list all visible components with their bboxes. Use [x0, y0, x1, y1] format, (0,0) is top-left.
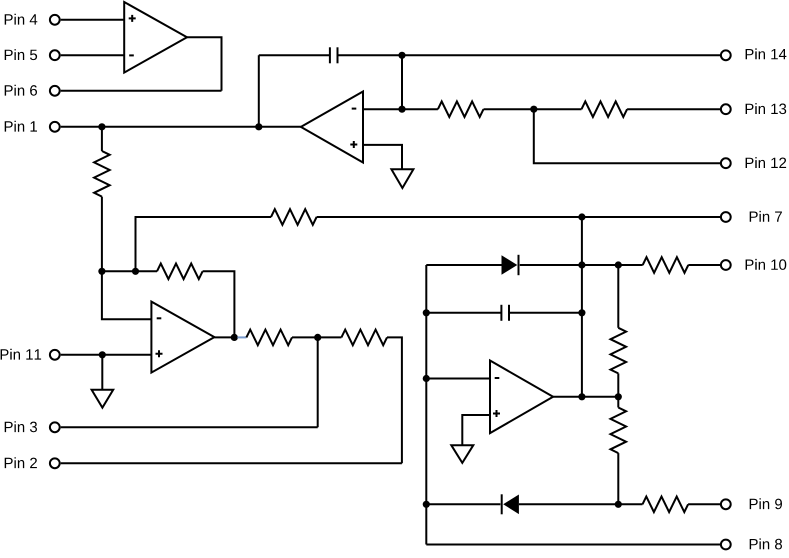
wire vertical net x582 Pin7 to U4 output — [581, 217, 583, 397]
terminal circle Pin 10 — [721, 260, 731, 270]
resistor R3 — [582, 101, 628, 117]
pin label Pin 4 — [5, 14, 38, 25]
wire R7 down to Pin 2 row — [387, 337, 402, 463]
resistor R6 — [246, 330, 292, 346]
node junction -in at x402 — [398, 106, 405, 113]
node junction rail cap row — [423, 309, 430, 316]
terminal circle Pin 5 — [50, 50, 60, 60]
node junction rail -in row — [423, 375, 430, 382]
ground symbol below U4 — [451, 445, 473, 463]
wire riser Pin 1 net to C1 — [258, 55, 260, 127]
wire R11 to Pin 9 — [688, 503, 720, 505]
terminal circle Pin 7 — [721, 212, 731, 222]
wire R6 to R7 — [292, 336, 341, 338]
terminal circle Pin 11 — [50, 350, 60, 360]
wire U4 +in to ground — [462, 415, 490, 445]
resistor R11 — [643, 496, 689, 512]
wire R1 to node A — [101, 197, 103, 272]
pin label Pin 1 — [5, 121, 37, 132]
wire U2 +in to ground — [363, 145, 402, 169]
node junction top line at x402 — [398, 52, 405, 59]
wire rail to D2 — [426, 503, 500, 505]
ground symbol below U2 — [391, 169, 413, 188]
terminal circle Pin 2 — [50, 458, 60, 468]
resistor R9 — [611, 328, 627, 374]
pin label Pin 6 — [5, 85, 37, 96]
wire node318 down to Pin 3 row — [317, 337, 319, 427]
capacitor C1 — [330, 47, 338, 63]
wire Pin 3 row — [61, 426, 318, 428]
wire R4 to Pin 7 — [317, 216, 720, 218]
wire x618 diode row to R9 — [617, 265, 619, 328]
resistor R2 — [438, 101, 484, 117]
wire C2 to x582 — [509, 312, 582, 314]
node junction output at x582 — [578, 393, 585, 400]
pin label Pin 2 — [5, 457, 37, 468]
wire node A to node B — [102, 270, 136, 272]
terminal circle Pin 8 — [721, 540, 731, 550]
node junction output at x618 — [615, 393, 622, 400]
diode D2 — [502, 494, 519, 514]
wire Pin 4 to U1 +in — [61, 19, 124, 21]
node junction diode row at x618 — [615, 261, 622, 268]
pin label Pin 14 — [746, 48, 787, 59]
wire node B up to Pin 7 row — [136, 217, 272, 271]
pin label Pin 11 — [1, 349, 42, 360]
wire R3 to Pin 13 — [627, 108, 720, 110]
diode D1 — [502, 255, 519, 275]
node junction diode row at x582 — [578, 261, 585, 268]
wire output row to R10 — [617, 397, 619, 408]
wire U4 output — [553, 396, 618, 398]
wire R10 to Pin 9 row — [617, 453, 619, 504]
op-amp U3 — [151, 302, 214, 373]
wire R8 to Pin 10 — [688, 264, 720, 266]
pin label Pin 8 — [750, 538, 782, 549]
wire Pin 11 node to ground — [101, 355, 103, 390]
wire R2 to R3 — [484, 108, 582, 110]
wire Pin 1 to U2 output — [61, 126, 301, 128]
resistor R4 — [271, 209, 317, 225]
pin label Pin 13 — [746, 103, 787, 114]
wire left rail of right block — [425, 265, 427, 545]
wire Pin 8 row — [426, 544, 720, 546]
wire node533 down and right to Pin 12 — [534, 109, 720, 163]
wire Pin1 node down to R1 — [101, 127, 103, 151]
resistor R10 — [611, 408, 627, 454]
pin label Pin 10 — [746, 259, 787, 270]
node junction at x533 — [530, 106, 537, 113]
terminal circle Pin 3 — [50, 422, 60, 432]
wire rail to D1 — [426, 264, 501, 266]
wire highlighted segment U3 output — [237, 336, 246, 338]
wire riser node402 down to U2 -in line — [401, 55, 403, 109]
node junction on Pin 1 wire at C1 riser — [255, 123, 262, 130]
node junction Pin 11 wire — [99, 351, 106, 358]
wire rail to C2 — [426, 312, 501, 314]
wire C1 to Pin 14 — [338, 54, 721, 56]
node B junction — [132, 268, 139, 275]
wire U1 output to Pin 6 net — [187, 37, 222, 91]
op-amp U4 — [490, 361, 553, 434]
terminal circle Pin 6 — [50, 86, 60, 96]
node junction x582 cap row — [578, 309, 585, 316]
node junction on Pin 1 wire at R1 — [98, 123, 105, 130]
node junction U3 output — [231, 334, 238, 341]
op-amp U1 — [124, 2, 187, 73]
terminal circle Pin 13 — [721, 104, 731, 114]
terminal circle Pin 4 — [50, 15, 60, 25]
node junction rail diode2 row — [423, 501, 430, 508]
terminal circle Pin 14 — [721, 50, 731, 60]
wire U3 output — [214, 336, 237, 338]
wire D1 to R8 — [520, 264, 643, 266]
node junction at x318 — [314, 334, 321, 341]
node junction Pin 7 row at x582 — [578, 213, 585, 220]
resistor R7 — [341, 330, 387, 346]
terminal circle Pin 1 — [50, 122, 60, 132]
wire Pin 11 to U3 +in — [61, 354, 152, 356]
resistor R8 — [643, 257, 689, 273]
wire Pin 6 to U1 output feedback — [61, 90, 222, 92]
resistor R5 feedback — [157, 264, 203, 280]
node A junction — [98, 268, 105, 275]
wire node A down to U3 -in — [102, 271, 151, 319]
wire R5 to U3 output riser — [203, 271, 235, 337]
ground symbol below Pin 11 — [92, 390, 114, 408]
wire U2 -in lead — [363, 108, 438, 110]
resistor R1 — [94, 151, 110, 197]
capacitor C2 — [501, 305, 509, 321]
wire rail to U4 -in — [426, 378, 490, 380]
wire D2 to R11 — [519, 503, 643, 505]
node junction diode2 row at x618 — [615, 501, 622, 508]
pin label Pin 12 — [746, 157, 787, 168]
pin label Pin 9 — [750, 498, 782, 509]
pin label Pin 3 — [5, 421, 37, 432]
wire Pin 2 row — [61, 462, 402, 464]
terminal circle Pin 12 — [721, 158, 731, 168]
op-amp U2 — [301, 92, 363, 163]
pin label Pin 5 — [5, 49, 37, 60]
terminal circle Pin 9 — [721, 499, 731, 509]
wire C1 left lead — [259, 54, 330, 56]
wire Pin 5 to U1 -in — [61, 54, 124, 56]
wire R9 to output row — [617, 373, 619, 396]
wire node B to R5 — [136, 270, 158, 272]
pin label Pin 7 — [750, 211, 782, 222]
